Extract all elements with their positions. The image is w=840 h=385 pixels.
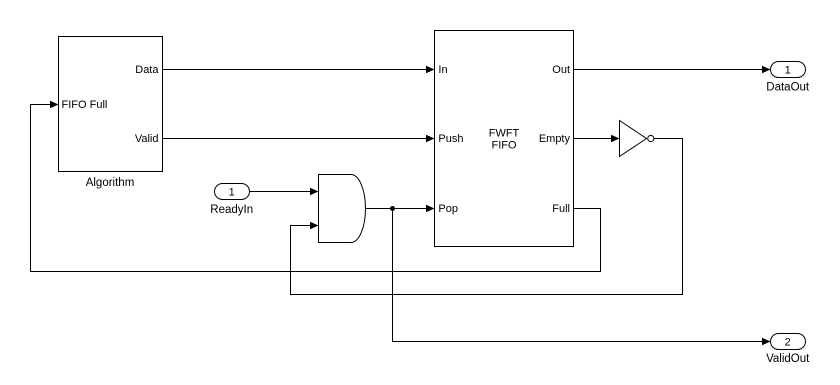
svg-text:Algorithm: Algorithm (86, 177, 135, 189)
svg-text:Valid: Valid (135, 133, 159, 145)
svg-text:FWFT: FWFT (489, 128, 520, 140)
port label In (438, 64, 447, 76)
wire Out to DataOut (574, 66, 771, 74)
port label Out (552, 64, 570, 76)
port label Valid (135, 133, 159, 145)
svg-text:ValidOut: ValidOut (766, 353, 810, 365)
svg-text:Out: Out (552, 64, 570, 76)
wire Empty to NOT gate (574, 135, 620, 143)
port label Data (135, 64, 159, 76)
label DataOut (766, 82, 810, 94)
wire NOT gate output to AND input 2 (291, 139, 683, 295)
port label Full (552, 203, 570, 215)
port label FIFO Full (62, 99, 108, 111)
svg-text:FIFO Full: FIFO Full (62, 99, 108, 111)
block value label FWFT FIFO (489, 128, 520, 152)
wire AND output to Pop (366, 205, 435, 213)
block Algorithm (59, 37, 163, 172)
svg-text:1: 1 (785, 65, 791, 77)
block FWFT FIFO (435, 31, 574, 247)
outport 2 ValidOut (771, 334, 806, 350)
svg-text:Pop: Pop (438, 203, 458, 215)
NOT gate U1 (620, 121, 654, 157)
outport 1 DataOut (771, 62, 806, 78)
block name label Algorithm (86, 177, 135, 189)
svg-text:Push: Push (438, 133, 463, 145)
wire branch junction to ValidOut (393, 209, 771, 346)
port label Push (438, 133, 463, 145)
port label Pop (438, 203, 458, 215)
wire ReadyIn to AND input 1 (250, 188, 319, 196)
svg-text:ReadyIn: ReadyIn (210, 204, 253, 216)
wire Data to In (163, 66, 435, 74)
svg-text:2: 2 (785, 337, 791, 349)
inport 1 ReadyIn (215, 184, 250, 200)
svg-text:DataOut: DataOut (766, 82, 810, 94)
label ReadyIn (210, 204, 253, 216)
svg-text:Data: Data (135, 64, 159, 76)
wire Full to FIFO Full feedback (31, 101, 601, 272)
svg-text:Empty: Empty (539, 133, 571, 145)
label ValidOut (766, 353, 810, 365)
svg-text:FIFO: FIFO (491, 140, 516, 152)
svg-text:Full: Full (552, 203, 570, 215)
port label Empty (539, 133, 571, 145)
svg-text:In: In (438, 64, 447, 76)
svg-text:1: 1 (229, 186, 235, 198)
junction dot on AND output (390, 206, 395, 211)
AND gate (319, 175, 366, 243)
wire Valid to Push (163, 135, 435, 143)
